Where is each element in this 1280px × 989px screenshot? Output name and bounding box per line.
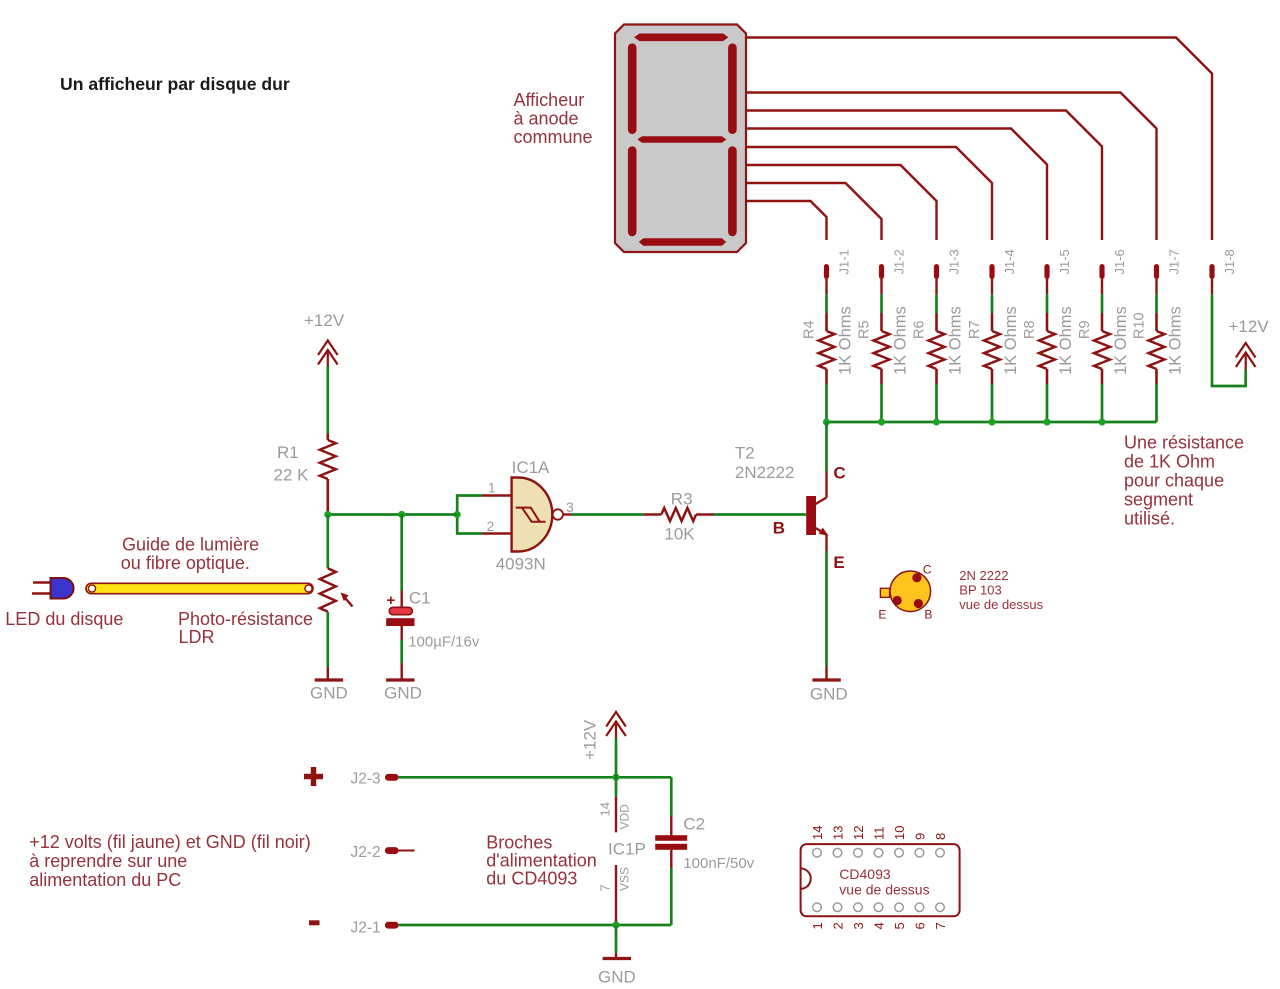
svg-text:J1-3: J1-3: [947, 249, 962, 274]
svg-text:+12V: +12V: [1229, 317, 1270, 336]
emitter gnd stub: [825, 666, 827, 679]
svg-text:du CD4093: du CD4093: [486, 869, 577, 889]
svg-text:R4: R4: [802, 320, 818, 339]
resistor R6: [935, 313, 938, 331]
svg-text:J2-1: J2-1: [351, 920, 381, 937]
svg-text:11: 11: [872, 827, 887, 841]
wire R8 to bus: [1046, 384, 1049, 422]
wire R10 to bus corner: [1155, 384, 1158, 422]
gate pin 2 lead: [482, 532, 512, 534]
resistor R10: [1155, 313, 1158, 331]
wire display segment to J1-8: [746, 38, 1212, 241]
connector pin J2-2: [385, 847, 399, 854]
svg-text:E: E: [878, 608, 886, 622]
connector pin J2-3: [385, 774, 399, 781]
svg-text:B: B: [773, 519, 785, 538]
IC1P pin 14 lead: [615, 797, 617, 833]
transistor package body: [890, 571, 931, 612]
wire junction to LDR: [326, 515, 329, 569]
svg-text:GND: GND: [810, 685, 848, 704]
resistor R1: [326, 434, 329, 441]
svg-text:E: E: [833, 553, 844, 572]
svg-text:R3: R3: [671, 490, 693, 509]
junction bus x881: [878, 418, 885, 425]
svg-text:J1-6: J1-6: [1112, 249, 1127, 274]
svg-text:2: 2: [831, 922, 846, 929]
transistor T2 base bar: [806, 496, 816, 535]
svg-text:VSS: VSS: [618, 867, 632, 891]
svg-text:R7: R7: [967, 320, 983, 339]
capacitor C1: [389, 607, 412, 614]
bottom gnd stub: [615, 953, 617, 957]
resistor R7: [991, 313, 994, 331]
wire junction to C1: [400, 515, 403, 591]
power +12V arrow bottom: [606, 712, 626, 727]
photo-resistor LDR: [320, 568, 336, 611]
svg-text:R9: R9: [1077, 320, 1093, 339]
wire J1-6 to R9: [1101, 294, 1104, 313]
svg-text:J1-7: J1-7: [1167, 249, 1182, 274]
wire C1 to GND: [400, 640, 403, 663]
CD4093 pin circle top 12: [854, 848, 863, 857]
package pin B: [914, 599, 923, 608]
wire junction to pin 14: [615, 777, 618, 796]
wire J1-5 to R8: [1046, 294, 1049, 313]
wire gate output to R3: [572, 513, 644, 516]
C2 bottom lead: [670, 850, 672, 868]
svg-text:22 K: 22 K: [274, 466, 310, 485]
resistor R5: [880, 313, 883, 331]
segment a: [634, 34, 728, 42]
svg-text:2N 2222: 2N 2222: [959, 568, 1008, 583]
LDR light arrow: [343, 596, 353, 607]
svg-text:J1-5: J1-5: [1057, 249, 1072, 274]
segment c: [728, 146, 737, 236]
wire display segment to J1-7: [746, 93, 1157, 241]
svg-text:J1-4: J1-4: [1002, 249, 1017, 274]
connector pin J1-4: [989, 264, 994, 279]
junction bus x936: [933, 418, 940, 425]
svg-text:14: 14: [810, 826, 825, 840]
svg-text:à reprendre sur une: à reprendre sur une: [29, 851, 187, 871]
IC1P pin 7 lead: [615, 865, 617, 922]
connector pin J1-8: [1209, 264, 1214, 279]
svg-text:1K Ohms: 1K Ohms: [892, 306, 910, 375]
svg-text:8: 8: [933, 833, 948, 840]
power +12V arrow left: [318, 341, 338, 356]
wire display segment to J1-5: [746, 129, 1047, 241]
CD4093 pin circle bottom 2: [833, 903, 842, 912]
wire J2-3 to C2: [399, 776, 672, 779]
svg-text:d'alimentation: d'alimentation: [486, 851, 597, 871]
svg-text:1K Ohms: 1K Ohms: [1002, 306, 1020, 375]
svg-text:C: C: [923, 563, 932, 577]
wire display segment to J1-2: [746, 183, 882, 240]
CD4093 pin circle top 9: [915, 848, 924, 857]
svg-text:2N2222: 2N2222: [735, 463, 795, 482]
segment d: [639, 238, 727, 246]
svg-text:5: 5: [892, 922, 907, 929]
svg-text:1: 1: [810, 922, 825, 929]
svg-text:LED du disque: LED du disque: [5, 609, 123, 629]
svg-text:J2-2: J2-2: [351, 844, 381, 861]
wire R9 to bus: [1101, 384, 1104, 422]
wire base: [714, 513, 806, 516]
LED du disque symbol: [33, 581, 51, 583]
svg-text:commune: commune: [514, 127, 593, 147]
CD4093 pin circle top 14: [813, 848, 822, 857]
wire emitter to GND: [825, 551, 828, 666]
svg-text:GND: GND: [598, 968, 636, 987]
svg-text:J1-2: J1-2: [892, 249, 907, 274]
svg-text:GND: GND: [384, 684, 422, 703]
svg-text:VDD: VDD: [618, 804, 632, 830]
svg-text:GND: GND: [310, 684, 348, 703]
wire R5 to bus: [880, 384, 883, 422]
ground under LDR: [315, 678, 343, 681]
connector pin J1-2: [879, 264, 884, 279]
svg-text:14: 14: [598, 802, 613, 816]
resistor R9: [1101, 313, 1104, 331]
wire C2 right leg lower: [670, 868, 673, 925]
junction bus x992: [988, 418, 995, 425]
wire J1-2 to R5: [880, 294, 883, 313]
wire gate inputs: [457, 496, 482, 534]
wire C2 right leg upper: [670, 777, 673, 815]
C1 bottom lead: [401, 626, 403, 640]
svg-text:+: +: [387, 592, 396, 609]
junction J2-3: [612, 774, 619, 781]
svg-text:100nF/50v: 100nF/50v: [683, 855, 754, 872]
ground under C1: [386, 678, 414, 681]
svg-text:9: 9: [913, 833, 928, 840]
emitter lead: [825, 535, 827, 551]
svg-text:J1-1: J1-1: [837, 249, 852, 274]
segment e: [628, 146, 637, 236]
svg-text:IC1P: IC1P: [608, 840, 646, 859]
svg-text:1K Ohms: 1K Ohms: [947, 306, 965, 375]
svg-text:utilisé.: utilisé.: [1124, 509, 1175, 529]
CD4093 pin circle bottom 3: [854, 903, 863, 912]
junction bus x1102: [1098, 418, 1105, 425]
connector pin J1-3: [934, 264, 939, 279]
power +12V arrow right: [1236, 343, 1256, 358]
svg-text:segment: segment: [1124, 490, 1193, 510]
C1 top lead: [401, 591, 403, 608]
CD4093 pin circle bottom 5: [895, 903, 904, 912]
svg-text:C1: C1: [409, 589, 431, 608]
svg-text:R10: R10: [1132, 312, 1148, 339]
package pin C: [912, 573, 921, 582]
CD4093 pin circle bottom 6: [915, 903, 924, 912]
svg-text:R8: R8: [1022, 320, 1038, 339]
CD4093 pin circle bottom 4: [874, 903, 883, 912]
svg-text:CD4093: CD4093: [839, 866, 891, 882]
svg-text:J2-3: J2-3: [351, 771, 381, 788]
junction bus x1047: [1043, 418, 1050, 425]
CD4093 pin circle top 8: [936, 848, 945, 857]
svg-text:R5: R5: [857, 320, 873, 339]
schmitt trigger mark: [516, 508, 540, 522]
svg-text:R6: R6: [912, 320, 928, 339]
wire R7 to bus: [991, 384, 994, 422]
wire R4 to bus: [825, 384, 828, 422]
svg-text:IC1A: IC1A: [512, 458, 550, 477]
wire arrow to junction: [615, 738, 618, 777]
svg-text:Afficheur: Afficheur: [514, 90, 585, 110]
svg-text:pour chaque: pour chaque: [1124, 471, 1224, 491]
transistor T2 emitter: [816, 528, 827, 535]
collector lead: [825, 472, 827, 498]
svg-text:1K Ohms: 1K Ohms: [1167, 306, 1185, 375]
connector pin J2-1: [385, 922, 399, 929]
wire LDR to GND: [326, 612, 329, 667]
junction R1: [324, 511, 331, 518]
capacitor C2: [655, 835, 687, 841]
wire R6 to bus: [935, 384, 938, 422]
CD4093 package body: [801, 844, 960, 916]
svg-text:alimentation du PC: alimentation du PC: [29, 870, 181, 890]
resistor R3: [643, 513, 661, 516]
junction bus x826: [823, 418, 830, 425]
svg-text:vue de dessus: vue de dessus: [839, 882, 929, 898]
svg-text:100µF/16v: 100µF/16v: [408, 634, 480, 651]
junction J2-1: [612, 921, 619, 928]
svg-text:R1: R1: [277, 443, 299, 462]
CD4093 pin circle bottom 7: [936, 903, 945, 912]
gate pin 1 lead: [482, 494, 512, 496]
wire display segment to J1-3: [746, 165, 937, 240]
svg-text:13: 13: [831, 826, 846, 840]
svg-text:7: 7: [933, 922, 948, 929]
svg-text:+12 volts (fil jaune) et GND (: +12 volts (fil jaune) et GND (fil noir): [29, 832, 311, 852]
CD4093 pin circle top 13: [833, 848, 842, 857]
svg-text:12: 12: [851, 826, 866, 840]
svg-text:4: 4: [872, 922, 887, 929]
svg-text:J1-8: J1-8: [1222, 249, 1237, 274]
C1 gnd stub: [401, 663, 403, 679]
segment b: [728, 43, 737, 134]
CD4093 pin circle top 10: [895, 848, 904, 857]
connector pin J1-7: [1154, 264, 1159, 279]
segment f: [628, 43, 637, 134]
svg-text:1K Ohms: 1K Ohms: [1112, 306, 1130, 375]
wire J1-4 to R7: [991, 294, 994, 313]
svg-text:C: C: [833, 464, 845, 483]
wire +12V to R1: [326, 366, 329, 434]
svg-text:4093N: 4093N: [496, 555, 546, 574]
svg-text:10: 10: [892, 826, 907, 840]
svg-text:vue de dessus: vue de dessus: [959, 597, 1043, 612]
wire J2-1 rail: [399, 924, 672, 927]
svg-text:de 1K Ohm: de 1K Ohm: [1124, 452, 1215, 472]
svg-text:7: 7: [598, 884, 613, 891]
transistor package tab: [880, 588, 889, 597]
junction C1: [398, 511, 405, 518]
svg-text:Une résistance: Une résistance: [1124, 433, 1244, 453]
label minus J2-1: [309, 920, 320, 925]
svg-text:6: 6: [913, 922, 928, 929]
svg-text:Un afficheur par disque dur: Un afficheur par disque dur: [60, 74, 290, 94]
CD4093 pin circle bottom 1: [813, 903, 822, 912]
svg-text:10K: 10K: [664, 525, 695, 544]
svg-text:C2: C2: [683, 815, 705, 834]
7-segment display body: [615, 25, 746, 253]
ground under T2: [812, 678, 840, 681]
connector pin J1-1: [824, 264, 829, 279]
svg-text:1K Ohms: 1K Ohms: [837, 306, 855, 375]
svg-text:à anode: à anode: [514, 109, 579, 129]
segment g: [638, 136, 727, 142]
wire bus 1K resistors: [827, 421, 1157, 424]
connector pin J1-6: [1099, 264, 1104, 279]
wire display segment to J1-4: [746, 147, 992, 240]
wire J1-3 to R6: [935, 294, 938, 313]
gate output bubble: [553, 509, 563, 519]
wire J1-1 to R4: [825, 294, 828, 313]
wire J1-8 to +12V: [1212, 294, 1246, 386]
svg-text:BP 103: BP 103: [959, 583, 1001, 598]
C2 top lead: [670, 816, 672, 836]
resistor R4: [825, 313, 828, 331]
light guide bar: [86, 583, 313, 593]
svg-text:T2: T2: [735, 444, 755, 463]
wire J1-7 to R10: [1155, 294, 1158, 313]
svg-text:B: B: [924, 608, 932, 622]
svg-text:Guide de lumière: Guide de lumière: [122, 535, 259, 555]
gate output lead: [563, 513, 572, 515]
svg-text:3: 3: [566, 499, 574, 515]
resistor R8: [1046, 313, 1049, 331]
wire R1 junction to gate: [328, 513, 457, 516]
junction gate input: [454, 511, 461, 518]
op-amp gate IC1A body: [512, 478, 553, 552]
package pin E: [893, 596, 902, 605]
svg-text:ou fibre optique.: ou fibre optique.: [121, 553, 250, 573]
LDR gnd stub: [327, 667, 329, 679]
ground bottom: [603, 957, 631, 960]
CD4093 notch: [801, 868, 811, 888]
svg-text:Broches: Broches: [486, 833, 552, 853]
svg-text:1: 1: [488, 481, 496, 496]
wire junction to GND bottom: [615, 925, 618, 953]
svg-text:3: 3: [851, 922, 866, 929]
connector pin J1-5: [1044, 264, 1049, 279]
CD4093 pin circle top 11: [874, 848, 883, 857]
wire display segment to J1-6: [746, 111, 1102, 241]
svg-text:1K Ohms: 1K Ohms: [1057, 306, 1075, 375]
svg-text:+12V: +12V: [304, 311, 345, 330]
label plus J2-3: [304, 774, 323, 780]
svg-text:2: 2: [487, 519, 495, 534]
svg-text:Photo-résistance: Photo-résistance: [178, 609, 313, 629]
wire display segment to J1-1: [746, 201, 827, 240]
svg-text:+12V: +12V: [581, 719, 600, 760]
svg-text:LDR: LDR: [179, 627, 215, 647]
wire bus to collector: [825, 422, 828, 472]
